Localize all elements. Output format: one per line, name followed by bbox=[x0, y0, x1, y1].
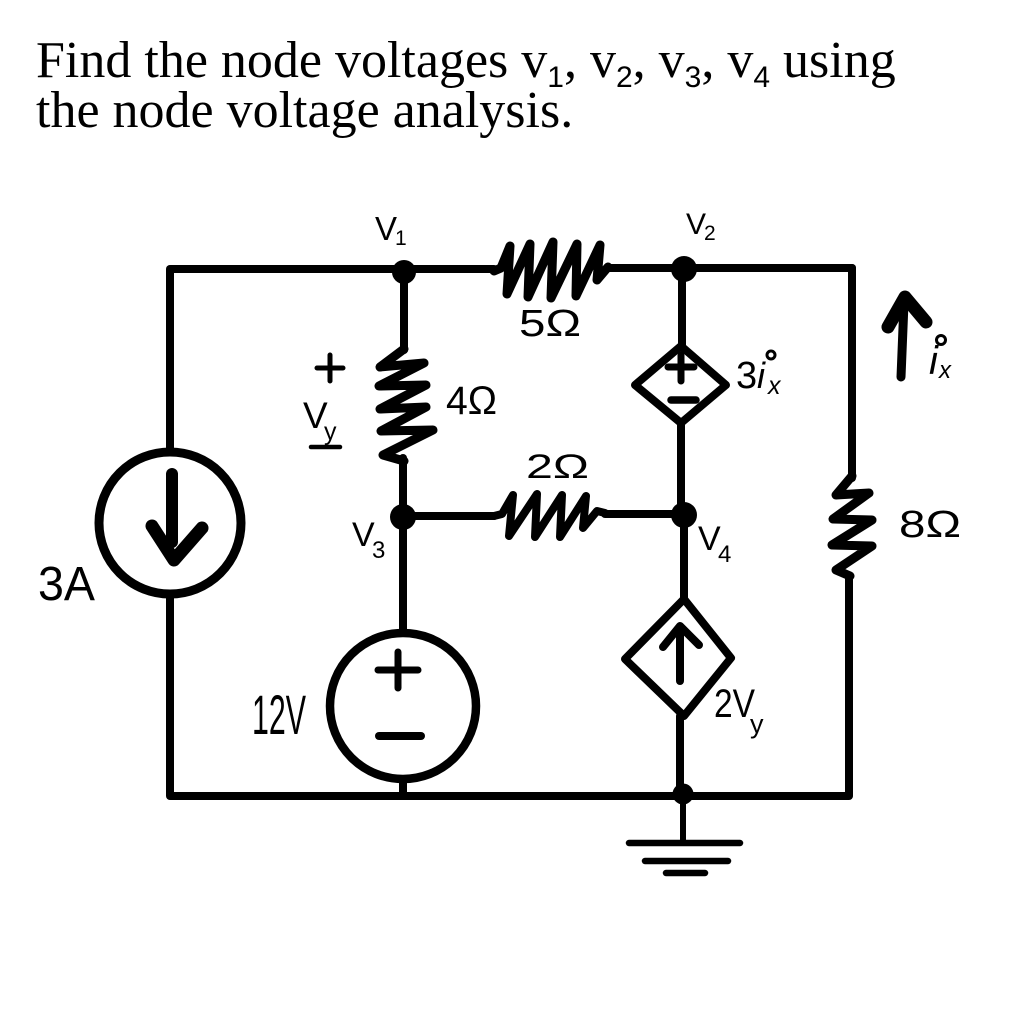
wire top: V2 to right corner bbox=[683, 264, 852, 272]
label ix bbox=[929, 336, 952, 385]
node bottom (reference) bbox=[673, 784, 694, 805]
wire 2Vy to bottom node bbox=[676, 716, 684, 793]
node V3 bbox=[390, 504, 416, 530]
svg-text:4: 4 bbox=[718, 541, 731, 568]
dependent source 3ix (diamond, + top - bottom) bbox=[635, 346, 726, 423]
label V1 bbox=[375, 210, 407, 250]
svg-text:y: y bbox=[324, 418, 337, 446]
label V4 bbox=[698, 520, 731, 568]
label +Vy- bbox=[303, 355, 343, 447]
wire top: V1 to 5ohm bbox=[404, 265, 494, 273]
svg-text:x: x bbox=[767, 372, 782, 400]
svg-text:i: i bbox=[929, 339, 939, 383]
resistor R 8ohm bbox=[832, 476, 872, 576]
wire top: 5ohm to V2 bbox=[608, 264, 683, 272]
svg-text:5Ω: 5Ω bbox=[519, 303, 581, 345]
label V3 bbox=[352, 516, 385, 564]
node V2 bbox=[671, 256, 697, 282]
resistor R 5ohm bbox=[494, 242, 608, 298]
wire V3 to 2ohm bbox=[403, 512, 494, 520]
resistor R 4ohm bbox=[379, 349, 433, 461]
svg-text:12V: 12V bbox=[252, 683, 306, 746]
wire V4 down to 2Vy source bbox=[680, 515, 688, 600]
svg-text:3: 3 bbox=[736, 355, 757, 397]
current source 3A bbox=[99, 452, 241, 594]
svg-text:i: i bbox=[757, 355, 766, 396]
wire left vertical bbox=[166, 269, 174, 452]
wire 3ix to V4 bbox=[677, 423, 685, 515]
svg-text:3A: 3A bbox=[38, 558, 95, 611]
wire V3 down to 12V source bbox=[399, 517, 407, 633]
svg-text:3: 3 bbox=[372, 537, 385, 564]
wire right lower bbox=[845, 578, 853, 795]
label 2Vy bbox=[714, 682, 764, 739]
voltage source 12V bbox=[330, 633, 476, 779]
resistor R 2ohm bbox=[494, 494, 605, 537]
wire top-left: V1 to left corner bbox=[171, 265, 404, 273]
current arrow ix bbox=[888, 297, 926, 377]
wire 12V to bottom bbox=[399, 779, 407, 796]
node V4 bbox=[671, 502, 697, 528]
title text bbox=[36, 36, 896, 136]
svg-text:1: 1 bbox=[395, 227, 407, 250]
wire left lower bbox=[166, 594, 174, 796]
wire bottom bbox=[171, 792, 849, 800]
dependent source 2Vy (diamond, up arrow) bbox=[625, 599, 731, 716]
ground bbox=[629, 799, 740, 873]
svg-text:x: x bbox=[938, 357, 952, 384]
svg-text:y: y bbox=[750, 709, 764, 739]
svg-text:8Ω: 8Ω bbox=[899, 504, 961, 546]
wire 2ohm to V4 bbox=[605, 510, 684, 518]
label 3ix bbox=[736, 351, 782, 400]
wire 4ohm to V3 bbox=[399, 458, 407, 517]
node V1 bbox=[392, 260, 416, 284]
wire V1 down to 4ohm bbox=[400, 272, 408, 350]
label V2 bbox=[686, 208, 716, 245]
svg-text:2Ω: 2Ω bbox=[526, 448, 589, 486]
svg-text:4Ω: 4Ω bbox=[446, 379, 497, 423]
svg-text:V: V bbox=[686, 208, 706, 241]
wire right upper bbox=[848, 268, 856, 478]
svg-text:2: 2 bbox=[704, 222, 716, 245]
svg-text:V: V bbox=[375, 210, 397, 247]
wire V2 down to 3ix source bbox=[678, 269, 686, 348]
